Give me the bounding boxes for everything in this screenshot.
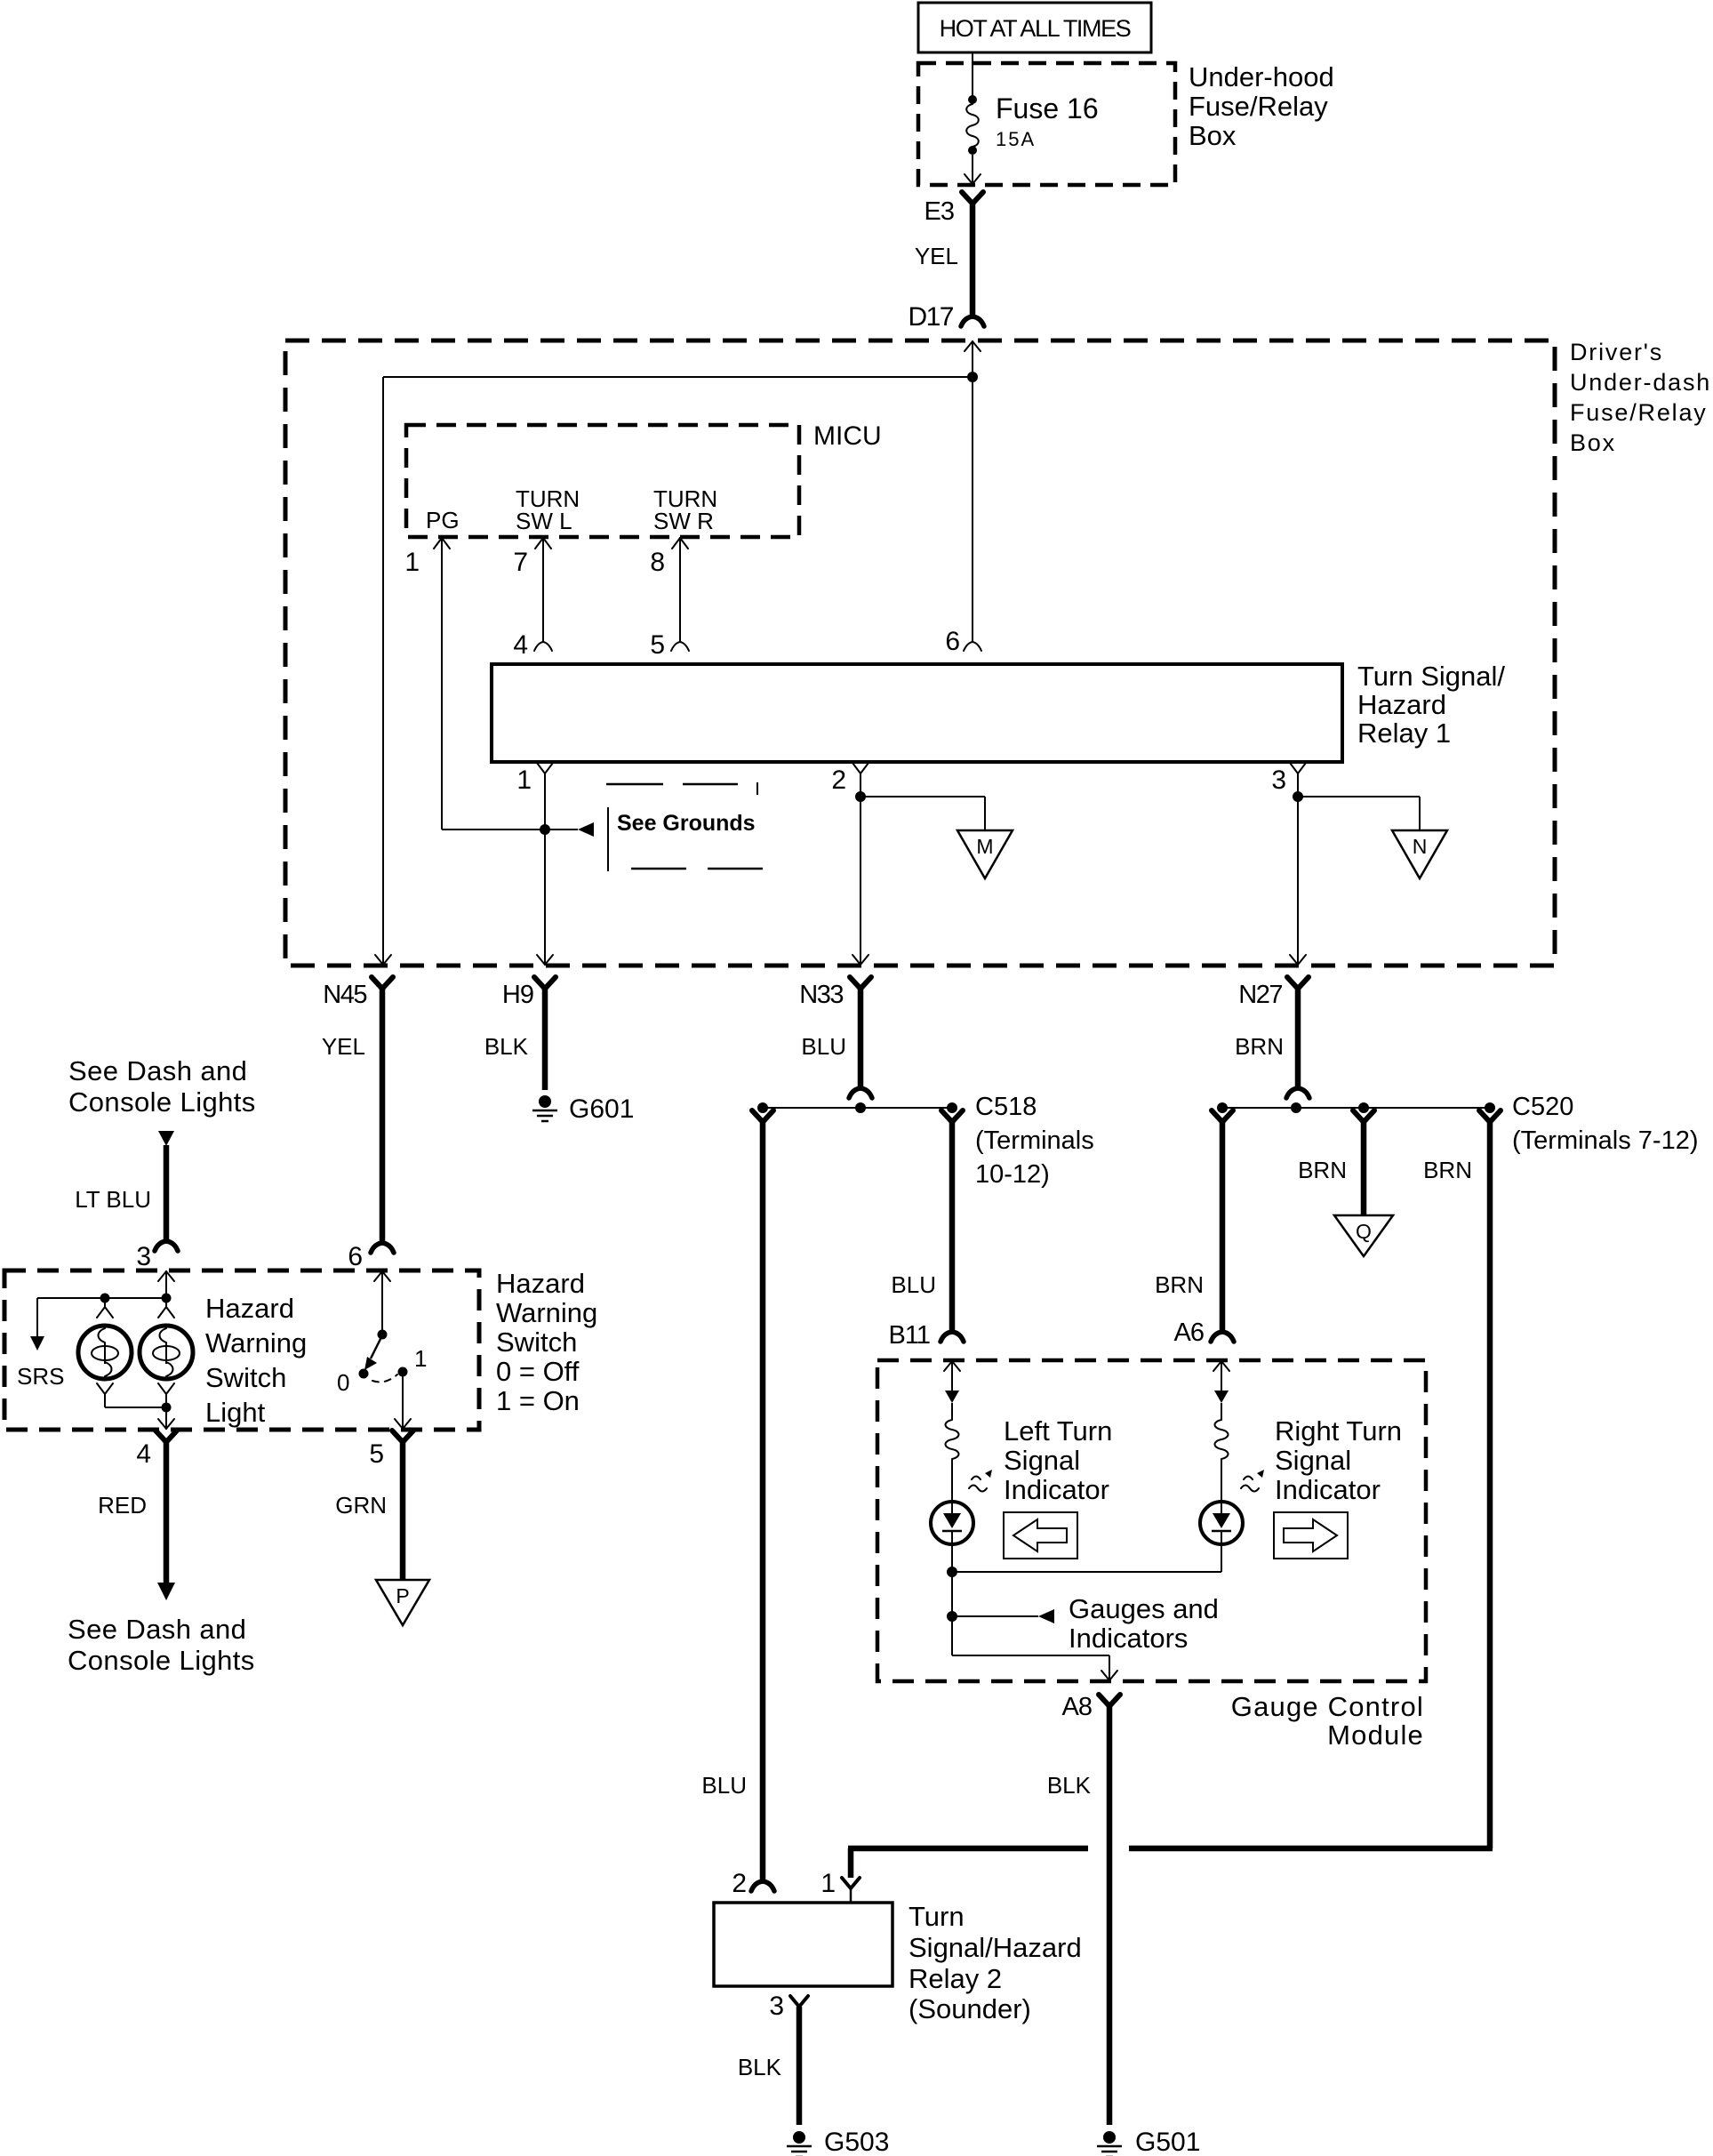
- right turn arrow icon: [1274, 1512, 1348, 1559]
- wire MICU pin7 to relay pin4: [542, 537, 544, 642]
- svg-text:BLK: BLK: [738, 2054, 782, 2080]
- svg-text:MICU: MICU: [813, 421, 882, 451]
- svg-text:YEL: YEL: [322, 1033, 365, 1060]
- svg-text:0: 0: [337, 1369, 349, 1396]
- right indicator branch wire: [1221, 1360, 1222, 1391]
- svg-text:Fuse/Relay: Fuse/Relay: [1570, 399, 1708, 426]
- gauges and indicators callout wire: [952, 1615, 1038, 1617]
- arrow into MICU pin 8: [672, 538, 688, 549]
- svg-text:BRN: BRN: [1298, 1157, 1347, 1183]
- svg-text:0 = Off: 0 = Off: [496, 1356, 580, 1387]
- switch pin6 internal wire: [381, 1270, 383, 1331]
- svg-text:BLU: BLU: [801, 1033, 846, 1060]
- svg-text:Fuse 16: Fuse 16: [996, 92, 1099, 124]
- svg-text:C518: C518: [975, 1093, 1037, 1121]
- svg-text:(Terminals 7-12): (Terminals 7-12): [1512, 1126, 1699, 1155]
- wire MICU pin8 to relay pin5: [679, 537, 681, 642]
- switch throw dashed arc: [372, 1375, 397, 1382]
- wire relay1 pin1 to H9: [544, 773, 546, 966]
- bulb 1 top connector: [104, 1298, 106, 1307]
- wire C520 right branch (BRN) down to relay2 pin1: [1479, 1110, 1501, 1122]
- svg-text:YEL: YEL: [915, 243, 958, 269]
- wire C518 left branch (BLU) long down to relay2 pin2: [752, 1110, 773, 1122]
- wire C520 branch (BRN) to A6: [1212, 1110, 1233, 1122]
- junction dot left cathode: [947, 1567, 957, 1577]
- svg-text:1: 1: [516, 765, 532, 795]
- svg-text:Signal/Hazard: Signal/Hazard: [909, 1932, 1082, 1963]
- bulb 2 top connector: [165, 1298, 167, 1307]
- svg-text:Box: Box: [1189, 120, 1237, 151]
- fuse F16 bottom terminal dot: [968, 146, 977, 155]
- See Grounds callout arrow: [578, 822, 594, 837]
- See Grounds callout left bar: [607, 807, 609, 871]
- flasher icon left: [969, 1477, 987, 1492]
- wire E3 to D17 (YEL): [962, 192, 983, 204]
- svg-text:Relay 1: Relay 1: [1357, 717, 1451, 749]
- Under-hood Fuse/Relay Box (dashed): [918, 63, 1175, 185]
- svg-text:B11: B11: [889, 1321, 930, 1350]
- wire horizontal branch to N45: [383, 376, 973, 378]
- svg-text:BRN: BRN: [1155, 1271, 1204, 1298]
- switch contact 0: [359, 1369, 369, 1379]
- LED left turn signal indicator: [931, 1502, 973, 1544]
- svg-text:Console Lights: Console Lights: [68, 1645, 255, 1676]
- node junction on D17 wire: [967, 372, 978, 382]
- arrow into MICU pin 7: [535, 538, 551, 549]
- off-page connector triangle P: [376, 1580, 429, 1625]
- junction dot pin1/PG ground wire: [540, 824, 550, 835]
- svg-text:Warning: Warning: [205, 1327, 307, 1359]
- arrow out of switch box pin 5: [395, 1419, 411, 1429]
- Hazard Warning Switch box (dashed): [4, 1270, 479, 1430]
- svg-text:G503: G503: [824, 2128, 889, 2156]
- wire C518 right branch (BLU) to B11: [941, 1110, 963, 1122]
- svg-text:6: 6: [945, 627, 960, 656]
- arrow into MICU pin 1: [434, 538, 450, 549]
- svg-text:N45: N45: [323, 981, 366, 1009]
- bulb 1 bottom connector: [97, 1383, 113, 1394]
- arrow at under-hood box bottom edge (pin E3): [965, 174, 981, 184]
- svg-text:Hazard: Hazard: [496, 1268, 585, 1299]
- svg-text:Console Lights: Console Lights: [68, 1086, 256, 1118]
- svg-text:Gauges and: Gauges and: [1069, 1593, 1219, 1624]
- wire pin3 internal: [165, 1270, 167, 1298]
- wire relay1 pin2 to N33: [860, 773, 861, 966]
- arrow into switch box pin 6: [374, 1271, 390, 1281]
- junction dot bulbs out: [162, 1403, 172, 1413]
- svg-text:Right Turn: Right Turn: [1275, 1415, 1402, 1447]
- wire from D17 down to relay pin 6: [972, 341, 973, 642]
- svg-text:Indicator: Indicator: [1275, 1474, 1381, 1505]
- wire contact1 to pin 5: [402, 1375, 404, 1430]
- svg-text:H9: H9: [502, 981, 533, 1009]
- svg-text:Driver's: Driver's: [1570, 339, 1663, 365]
- svg-text:RED: RED: [98, 1492, 147, 1519]
- svg-text:Indicators: Indicators: [1069, 1623, 1188, 1654]
- svg-text:C520: C520: [1512, 1093, 1573, 1121]
- wire MICU pin1 (PG) down: [441, 537, 443, 830]
- svg-text:6: 6: [348, 1242, 363, 1271]
- svg-text:SW L: SW L: [516, 508, 572, 534]
- svg-text:(Sounder): (Sounder): [909, 1993, 1031, 2024]
- svg-text:1: 1: [820, 1869, 836, 1898]
- svg-text:Relay 2: Relay 2: [909, 1963, 1002, 1994]
- wire joining indicator cathodes: [952, 1571, 1221, 1573]
- svg-text:See Grounds: See Grounds: [617, 811, 756, 836]
- fuse 16 element: [966, 104, 979, 147]
- svg-text:Under-dash: Under-dash: [1570, 369, 1711, 396]
- svg-text:Module: Module: [1327, 1719, 1424, 1751]
- junction dot bulb1 feed: [100, 1294, 110, 1303]
- left turn arrow icon: [1004, 1512, 1077, 1559]
- connector C520 bus line: [1222, 1107, 1490, 1109]
- svg-text:A8: A8: [1062, 1693, 1092, 1721]
- MICU (dashed box): [406, 425, 799, 537]
- ground G501: [1103, 2131, 1116, 2144]
- svg-text:D17: D17: [908, 302, 953, 332]
- LED right turn signal indicator: [1200, 1502, 1243, 1544]
- left indicator branch wire: [951, 1360, 953, 1391]
- svg-text:1: 1: [414, 1345, 427, 1372]
- wire crossing A8 (no connection) right segment: [1129, 1846, 1493, 1852]
- wire to pin 4: [165, 1407, 167, 1430]
- svg-text:G601: G601: [569, 1094, 634, 1124]
- wire pin5 (GRN) to triangle P: [392, 1431, 413, 1442]
- svg-text:Under-hood: Under-hood: [1189, 61, 1334, 92]
- svg-text:BLK: BLK: [484, 1033, 529, 1060]
- wire relay2 pin3 (BLK) to ground G503: [796, 2007, 803, 2125]
- wire to SRS and bulbs: [37, 1297, 166, 1299]
- arrow out of switch box pin 4: [158, 1419, 174, 1429]
- wire pin3 to triangle N: [1298, 796, 1420, 797]
- resistor right indicator: [1215, 1420, 1229, 1459]
- svg-text:P: P: [396, 1584, 409, 1607]
- hazard switch light bulb 2: [140, 1326, 193, 1379]
- svg-text:8: 8: [650, 548, 665, 577]
- Gauge Control Module box (dashed): [877, 1360, 1426, 1681]
- svg-text:4: 4: [136, 1439, 151, 1469]
- svg-text:Signal: Signal: [1275, 1445, 1351, 1476]
- svg-text:3: 3: [136, 1242, 151, 1271]
- junction dot pin3: [162, 1294, 172, 1303]
- svg-text:BRN: BRN: [1235, 1033, 1284, 1060]
- svg-text:Indicator: Indicator: [1004, 1474, 1109, 1505]
- ground G601: [539, 1095, 551, 1108]
- arrow at box bottom edge N33: [852, 955, 869, 965]
- svg-text:Fuse/Relay: Fuse/Relay: [1189, 91, 1328, 122]
- svg-text:5: 5: [650, 630, 665, 660]
- svg-text:BLK: BLK: [1047, 1772, 1092, 1799]
- wire to A8 exit: [952, 1655, 1109, 1656]
- wire from fuse to E3 pin: [972, 155, 973, 184]
- svg-text:Left Turn: Left Turn: [1004, 1415, 1112, 1447]
- svg-text:N33: N33: [799, 981, 843, 1009]
- svg-text:See Dash and: See Dash and: [68, 1614, 246, 1645]
- svg-text:2: 2: [732, 1869, 747, 1898]
- See Grounds callout dashes bottom: [631, 868, 686, 870]
- junction dot gauges tap: [947, 1611, 957, 1622]
- wire relay1 pin3 to N27: [1297, 773, 1299, 966]
- svg-text:7: 7: [513, 548, 528, 577]
- svg-text:A6: A6: [1174, 1318, 1204, 1347]
- current direction arrow left: [945, 1391, 959, 1403]
- junction dot relay1 pin2: [855, 791, 866, 802]
- relay1 pin 1 connector: [537, 763, 553, 773]
- power label box HOT AT ALL TIMES: [918, 3, 1151, 52]
- off-page connector triangle Q: [1334, 1215, 1393, 1256]
- flasher icon right: [1241, 1477, 1259, 1492]
- current direction arrow right: [1214, 1391, 1229, 1403]
- svg-text:Turn Signal/: Turn Signal/: [1357, 661, 1505, 692]
- svg-text:1: 1: [404, 548, 420, 577]
- relay1 pin 2 connector: [852, 763, 869, 773]
- wire pin4 (RED) to dash lights: [156, 1431, 177, 1442]
- hazard switch light bulb 1: [78, 1326, 132, 1379]
- svg-text:Hazard: Hazard: [205, 1293, 294, 1324]
- relay1 pin 3 connector: [1290, 763, 1306, 773]
- svg-text:(Terminals: (Terminals: [975, 1126, 1094, 1155]
- Driver's Under-dash Fuse/Relay Box (dashed): [285, 341, 1555, 966]
- off-page connector triangle M: [957, 830, 1013, 878]
- wire N27 (BRN) down to C520: [1287, 977, 1309, 989]
- wire N45 branch vertical: [382, 377, 384, 966]
- svg-text:2: 2: [831, 765, 846, 795]
- See Grounds callout dashes top: [606, 783, 663, 786]
- svg-text:Signal: Signal: [1004, 1445, 1080, 1476]
- switch arm: [371, 1339, 380, 1359]
- svg-text:Switch: Switch: [205, 1362, 286, 1393]
- svg-text:3: 3: [769, 1992, 784, 2021]
- svg-text:Gauge Control: Gauge Control: [1231, 1691, 1424, 1722]
- svg-text:Box: Box: [1570, 429, 1616, 456]
- wire joining bulbs bottom: [105, 1407, 166, 1408]
- arrow at box bottom edge N27: [1290, 955, 1306, 965]
- wire from HOT AT ALL TIMES into fuse box: [972, 52, 973, 96]
- switch contact 1: [398, 1367, 408, 1377]
- wire H9 (BLK) to ground G601: [534, 977, 556, 989]
- See Grounds callout tick right: [756, 782, 758, 795]
- svg-text:Q: Q: [1356, 1220, 1372, 1243]
- wire N33 (BLU) down to C518: [850, 977, 871, 989]
- svg-text:BLU: BLU: [891, 1271, 936, 1298]
- svg-text:LT BLU: LT BLU: [75, 1186, 151, 1213]
- svg-text:Warning: Warning: [496, 1297, 597, 1328]
- off-page connector triangle N: [1392, 830, 1447, 878]
- arrow out of gauge module at A8: [1101, 1671, 1117, 1680]
- svg-text:5: 5: [369, 1439, 384, 1469]
- svg-text:Switch: Switch: [496, 1326, 577, 1358]
- relay2 pin 3 connector: [790, 1996, 808, 2007]
- svg-text:Turn: Turn: [909, 1901, 965, 1932]
- wire PG to relay pin1 junction: [442, 829, 578, 830]
- arrow at box bottom edge H9: [537, 955, 553, 965]
- wire C520 branch (BRN) to triangle Q: [1353, 1110, 1374, 1122]
- svg-text:G501: G501: [1135, 2128, 1200, 2156]
- svg-text:15A: 15A: [996, 128, 1036, 150]
- svg-text:PG: PG: [426, 507, 460, 533]
- svg-text:N27: N27: [1238, 981, 1282, 1009]
- arrow into gauge module at B11: [944, 1361, 960, 1371]
- wire relay2 pin1 to C520 branch: [848, 1848, 854, 1878]
- wire A8 (BLK) to ground G501: [1099, 1695, 1120, 1706]
- svg-text:10-12): 10-12): [975, 1160, 1050, 1189]
- svg-text:E3: E3: [925, 197, 954, 226]
- junction dot relay1 pin3: [1293, 791, 1303, 802]
- svg-text:GRN: GRN: [335, 1492, 387, 1519]
- svg-text:N: N: [1413, 835, 1428, 858]
- arrow at box bottom edge N45: [375, 955, 391, 965]
- svg-text:See Dash and: See Dash and: [68, 1055, 247, 1086]
- svg-text:HOT AT ALL TIMES: HOT AT ALL TIMES: [940, 15, 1131, 42]
- arrow entering under-dash box at D17: [965, 341, 981, 351]
- fuse F16 top terminal dot: [968, 95, 977, 104]
- SRS branch arrow: [36, 1298, 38, 1336]
- svg-text:Light: Light: [205, 1397, 266, 1428]
- arrow into switch box pin 3: [158, 1271, 174, 1281]
- wire N45 (YEL) down to hazard switch pin6: [372, 977, 393, 989]
- svg-text:M: M: [976, 835, 993, 858]
- svg-text:BLU: BLU: [701, 1772, 747, 1799]
- switch pivot dot: [378, 1330, 388, 1340]
- Turn Signal/Hazard Relay 1 box: [492, 664, 1342, 762]
- svg-text:4: 4: [513, 630, 528, 660]
- relay2 pin 1 connector: [842, 1878, 860, 1888]
- svg-text:1 = On: 1 = On: [496, 1385, 580, 1416]
- wire from dash lights (LT BLU) to pin 3: [158, 1131, 174, 1146]
- Turn Signal/Hazard Relay 2 box: [714, 1903, 893, 1986]
- arrow into gauge module at A6: [1213, 1361, 1229, 1371]
- svg-text:SRS: SRS: [17, 1363, 64, 1390]
- svg-text:BRN: BRN: [1423, 1157, 1472, 1183]
- svg-text:Hazard: Hazard: [1357, 689, 1446, 720]
- connector C518 bus line: [763, 1107, 952, 1109]
- wire down to gauges tap: [951, 1572, 953, 1655]
- ground G503: [793, 2131, 805, 2144]
- svg-text:SW R: SW R: [653, 508, 714, 534]
- svg-text:3: 3: [1271, 765, 1286, 795]
- wire pin2 to triangle M: [861, 796, 985, 797]
- resistor left indicator: [946, 1420, 959, 1459]
- bulb 2 bottom connector: [158, 1383, 174, 1394]
